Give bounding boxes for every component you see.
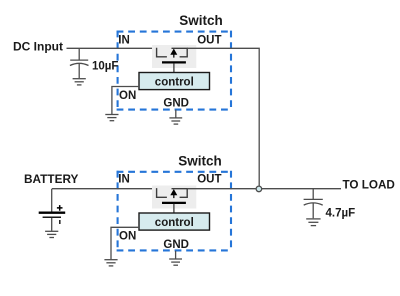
transistor Q1 gate bar — [162, 61, 186, 63]
battery BT1 stem — [51, 189, 53, 212]
capacitor C1 curved plate — [70, 63, 89, 65]
ground (GND pin U1) — [169, 110, 182, 124]
transistor Q2 source post — [157, 188, 167, 197]
svg-text:DC Input: DC Input — [13, 40, 63, 54]
svg-text:Switch: Switch — [179, 13, 223, 28]
transistor Q2 gate bar — [162, 202, 186, 204]
svg-text:OUT: OUT — [197, 174, 221, 186]
control block U1 — [139, 73, 210, 90]
svg-text:4.7µF: 4.7µF — [326, 208, 356, 220]
svg-text:control: control — [155, 77, 194, 89]
battery BT1 lower stem — [51, 218, 53, 231]
svg-text:OUT: OUT — [197, 35, 221, 47]
node DC input rail / wire DC Input to FET — [67, 47, 157, 49]
svg-text:10µF: 10µF — [92, 61, 118, 73]
wire OUT U1 to junction — [187, 48, 259, 186]
capacitor C2 4.7uF stem — [312, 189, 314, 200]
wire OUT U2 to junction — [187, 188, 256, 190]
transistor Q1 drain post — [180, 48, 188, 57]
ground (C2) — [306, 219, 320, 226]
control block U2 — [139, 213, 210, 230]
transistor Q1 top channel line — [172, 47, 189, 49]
battery BT1 negative plate — [43, 216, 61, 218]
switch U2 dashed boundary — [117, 171, 232, 251]
svg-text:BATTERY: BATTERY — [24, 172, 79, 186]
svg-text:TO LOAD: TO LOAD — [343, 179, 395, 192]
transistor Q2 gate stem — [173, 204, 175, 213]
wire ON pin U2 to ground — [111, 227, 139, 259]
capacitor C1 10uF stem — [78, 48, 80, 60]
capacitor C2 lower stem — [312, 203, 314, 218]
wire ON pin U1 to ground — [112, 87, 139, 115]
transistor Q1 source post — [157, 48, 167, 57]
capacitor C2 top plate — [304, 198, 323, 200]
switch U1 dashed boundary — [117, 31, 232, 110]
svg-text:IN: IN — [118, 35, 130, 47]
battery BT1 minus tick — [59, 220, 61, 224]
capacitor C1 lower stem — [78, 64, 80, 78]
battery BT1 positive plate — [39, 212, 65, 214]
ground (ON pin U2) — [104, 260, 117, 266]
node junction (output OR node) — [256, 186, 262, 192]
svg-text:control: control — [155, 217, 194, 229]
transistor Q2 top channel line — [172, 188, 189, 190]
transistor Q2 (pass FET of U2) background — [152, 186, 196, 209]
transistor Q1 (pass FET of U1) background — [152, 45, 196, 68]
svg-text:ON: ON — [119, 230, 136, 242]
svg-text:IN: IN — [118, 174, 130, 186]
ground (battery) — [45, 231, 58, 237]
wire junction to load — [262, 188, 341, 190]
transistor Q2 body arrow — [173, 194, 175, 198]
svg-text:GND: GND — [163, 239, 189, 251]
capacitor C1 top plate — [70, 59, 88, 61]
svg-text:ON: ON — [119, 90, 136, 102]
battery BT1 plus sign — [57, 205, 63, 211]
ground (C1) — [73, 79, 86, 85]
transistor Q2 drain post — [180, 189, 188, 198]
svg-text:GND: GND — [163, 98, 189, 110]
svg-text:Switch: Switch — [178, 153, 222, 168]
capacitor C2 curved plate — [304, 203, 323, 205]
transistor Q1 body arrow — [173, 54, 175, 58]
wire battery rail to FET U2 — [52, 188, 157, 190]
ground (GND pin U2) — [169, 251, 182, 265]
ground (ON pin U1) — [105, 115, 118, 121]
transistor Q1 gate stem — [173, 63, 175, 72]
